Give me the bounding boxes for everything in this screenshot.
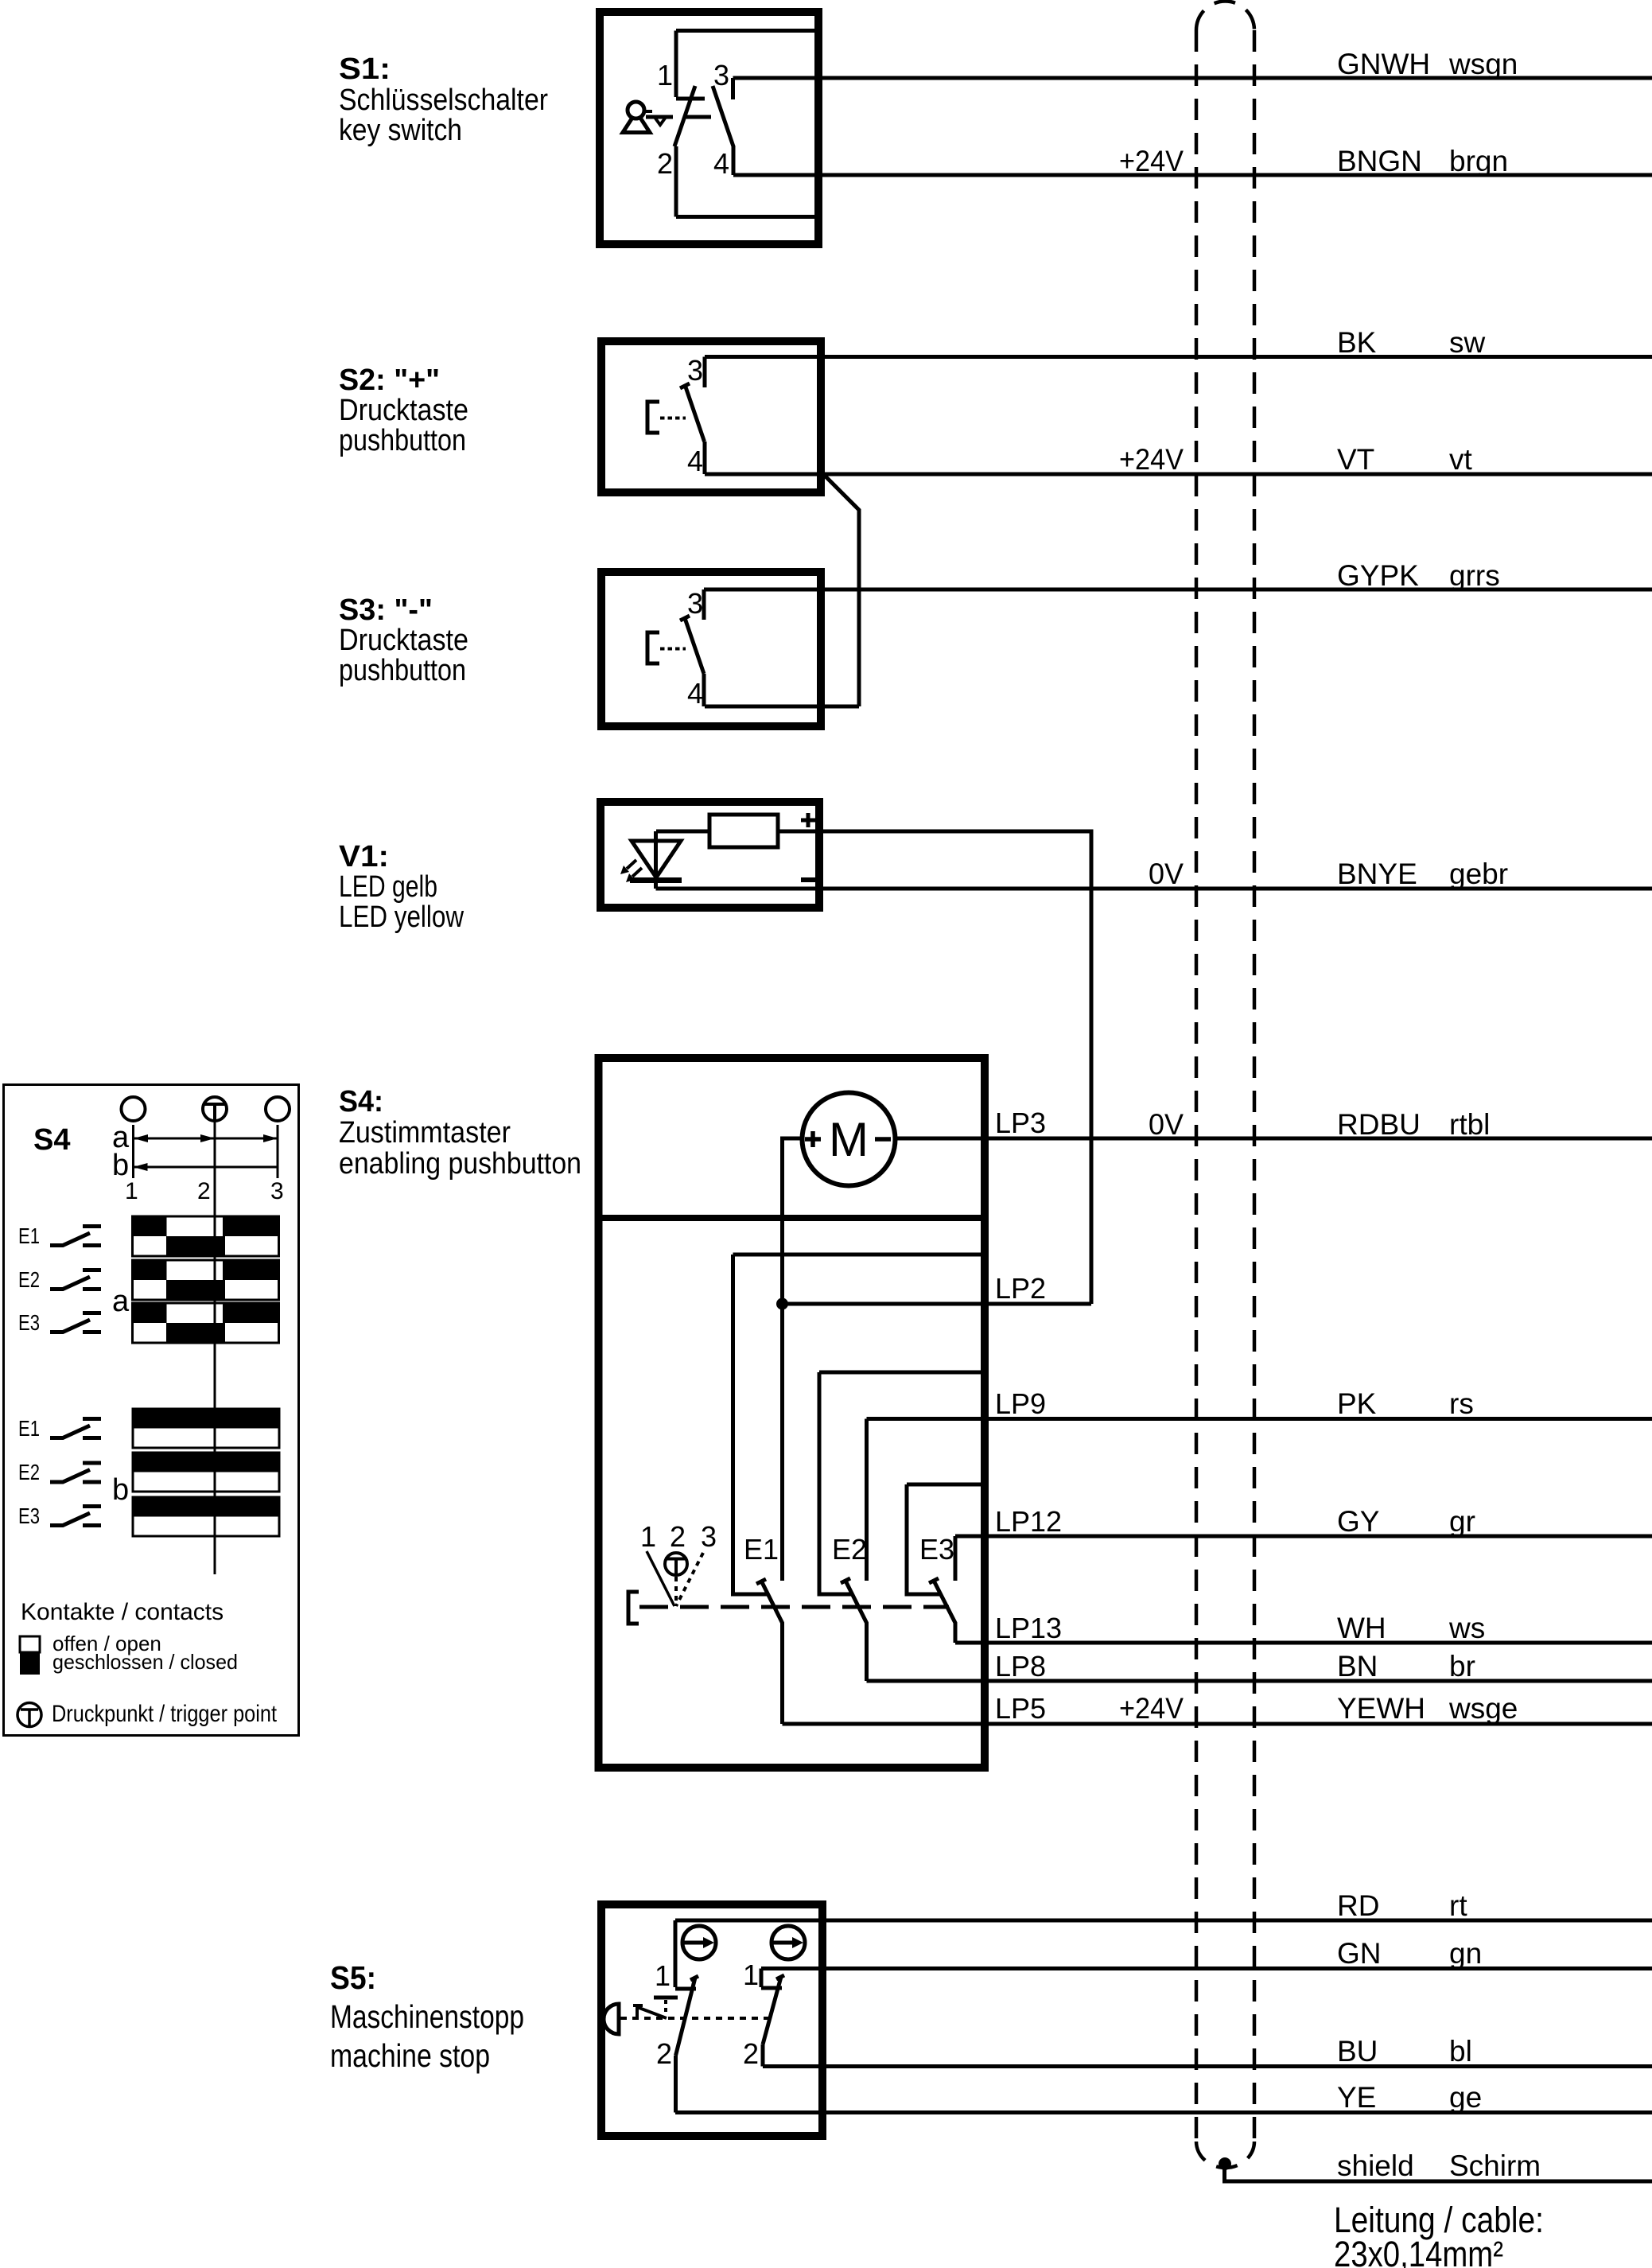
svg-text:b: b (112, 1473, 129, 1507)
svg-text:GYPK: GYPK (1337, 559, 1419, 592)
svg-text:sw: sw (1449, 326, 1486, 359)
svg-text:bl: bl (1449, 2035, 1472, 2068)
svg-text:LP2: LP2 (995, 1272, 1046, 1305)
svg-text:4: 4 (687, 445, 703, 477)
svg-text:Maschinenstopp: Maschinenstopp (330, 1998, 524, 2035)
svg-text:4: 4 (713, 147, 729, 180)
svg-text:shield: shield (1337, 2149, 1414, 2182)
svg-text:S5:: S5: (330, 1959, 376, 1996)
svg-text:S4:: S4: (339, 1085, 383, 1118)
svg-text:E3: E3 (18, 1310, 40, 1335)
svg-text:S4: S4 (33, 1123, 70, 1157)
svg-text:2: 2 (656, 2037, 672, 2070)
svg-text:ws: ws (1448, 1612, 1485, 1644)
svg-text:V1:: V1: (339, 840, 389, 873)
svg-text:0V: 0V (1149, 858, 1184, 890)
svg-text:E1: E1 (18, 1416, 40, 1441)
svg-text:E2: E2 (18, 1267, 40, 1292)
svg-text:LED yellow: LED yellow (339, 901, 464, 934)
svg-text:RDBU: RDBU (1337, 1108, 1421, 1141)
svg-text:PK: PK (1337, 1387, 1377, 1420)
svg-text:2: 2 (670, 1520, 686, 1553)
svg-text:wsgn: wsgn (1448, 48, 1518, 80)
svg-text:S1:: S1: (339, 53, 391, 86)
svg-text:Schlüsselschalter: Schlüsselschalter (339, 84, 548, 117)
svg-text:E1: E1 (18, 1223, 40, 1248)
svg-text:GNWH: GNWH (1337, 48, 1430, 80)
svg-text:+24V: +24V (1119, 1692, 1184, 1725)
svg-text:M: M (829, 1113, 869, 1166)
svg-text:a: a (112, 1285, 130, 1318)
svg-text:RD: RD (1337, 1889, 1379, 1922)
svg-text:gr: gr (1449, 1505, 1475, 1538)
svg-text:+24V: +24V (1119, 145, 1184, 177)
svg-text:WH: WH (1337, 1612, 1386, 1644)
svg-text:+24V: +24V (1119, 443, 1184, 476)
svg-text:machine stop: machine stop (330, 2037, 490, 2074)
svg-text:23x0,14mm²: 23x0,14mm² (1334, 2234, 1503, 2268)
svg-text:3: 3 (270, 1178, 284, 1204)
svg-text:VT: VT (1337, 443, 1374, 476)
svg-text:brgn: brgn (1449, 145, 1508, 177)
svg-text:E3: E3 (18, 1504, 40, 1528)
svg-text:E3: E3 (919, 1533, 954, 1566)
svg-text:E1: E1 (744, 1533, 779, 1566)
svg-text:S2: "+": S2: "+" (339, 364, 440, 397)
svg-text:b: b (112, 1149, 129, 1182)
svg-text:rtbl: rtbl (1449, 1108, 1490, 1141)
svg-text:pushbutton: pushbutton (339, 654, 466, 687)
svg-text:E2: E2 (18, 1460, 40, 1484)
svg-text:rt: rt (1449, 1889, 1467, 1922)
svg-text:2: 2 (197, 1178, 211, 1204)
svg-text:pushbutton: pushbutton (339, 424, 466, 457)
svg-text:BNGN: BNGN (1337, 145, 1422, 177)
svg-text:LP3: LP3 (995, 1107, 1046, 1139)
svg-text:0V: 0V (1149, 1108, 1184, 1141)
svg-text:BNYE: BNYE (1337, 858, 1417, 890)
svg-text:BN: BN (1337, 1650, 1378, 1683)
svg-text:E2: E2 (832, 1533, 867, 1566)
svg-text:GN: GN (1337, 1937, 1382, 1970)
svg-text:rs: rs (1449, 1387, 1474, 1420)
svg-text:1: 1 (640, 1520, 656, 1553)
svg-text:vt: vt (1449, 443, 1473, 476)
svg-text:grrs: grrs (1449, 559, 1500, 592)
svg-text:YEWH: YEWH (1337, 1692, 1425, 1725)
svg-text:1: 1 (743, 1959, 759, 1991)
svg-text:key switch: key switch (339, 114, 462, 147)
svg-text:LP13: LP13 (995, 1612, 1062, 1644)
svg-text:Drucktaste: Drucktaste (339, 624, 468, 657)
svg-text:LP5: LP5 (995, 1692, 1046, 1725)
svg-text:LP9: LP9 (995, 1387, 1046, 1420)
svg-text:GY: GY (1337, 1505, 1379, 1538)
svg-text:1: 1 (657, 59, 673, 91)
svg-text:LP12: LP12 (995, 1505, 1062, 1538)
svg-text:BU: BU (1337, 2035, 1378, 2068)
svg-text:3: 3 (701, 1520, 717, 1553)
svg-text:Zustimmtaster: Zustimmtaster (339, 1116, 511, 1150)
svg-text:enabling pushbutton: enabling pushbutton (339, 1147, 581, 1181)
svg-text:wsge: wsge (1448, 1692, 1518, 1725)
svg-text:3: 3 (687, 587, 703, 620)
svg-text:geschlossen / closed: geschlossen / closed (52, 1650, 238, 1674)
svg-text:br: br (1449, 1650, 1475, 1683)
svg-text:2: 2 (743, 2037, 759, 2070)
svg-text:2: 2 (657, 147, 673, 180)
svg-text:Druckpunkt / trigger point: Druckpunkt / trigger point (52, 1701, 278, 1727)
svg-text:gn: gn (1449, 1937, 1482, 1970)
svg-text:Schirm: Schirm (1449, 2149, 1541, 2182)
svg-text:Kontakte / contacts: Kontakte / contacts (21, 1599, 224, 1625)
svg-text:1: 1 (655, 1959, 671, 1992)
svg-text:ge: ge (1449, 2081, 1482, 2114)
svg-text:LP8: LP8 (995, 1650, 1046, 1683)
svg-text:4: 4 (687, 677, 703, 710)
svg-text:Drucktaste: Drucktaste (339, 394, 468, 427)
svg-text:1: 1 (125, 1178, 138, 1204)
svg-text:S3: "-": S3: "-" (339, 593, 433, 627)
svg-text:3: 3 (687, 354, 703, 387)
svg-text:LED gelb: LED gelb (339, 870, 437, 904)
svg-text:gebr: gebr (1449, 858, 1508, 890)
svg-text:YE: YE (1337, 2081, 1376, 2114)
svg-text:BK: BK (1337, 326, 1377, 359)
svg-text:3: 3 (713, 59, 729, 91)
